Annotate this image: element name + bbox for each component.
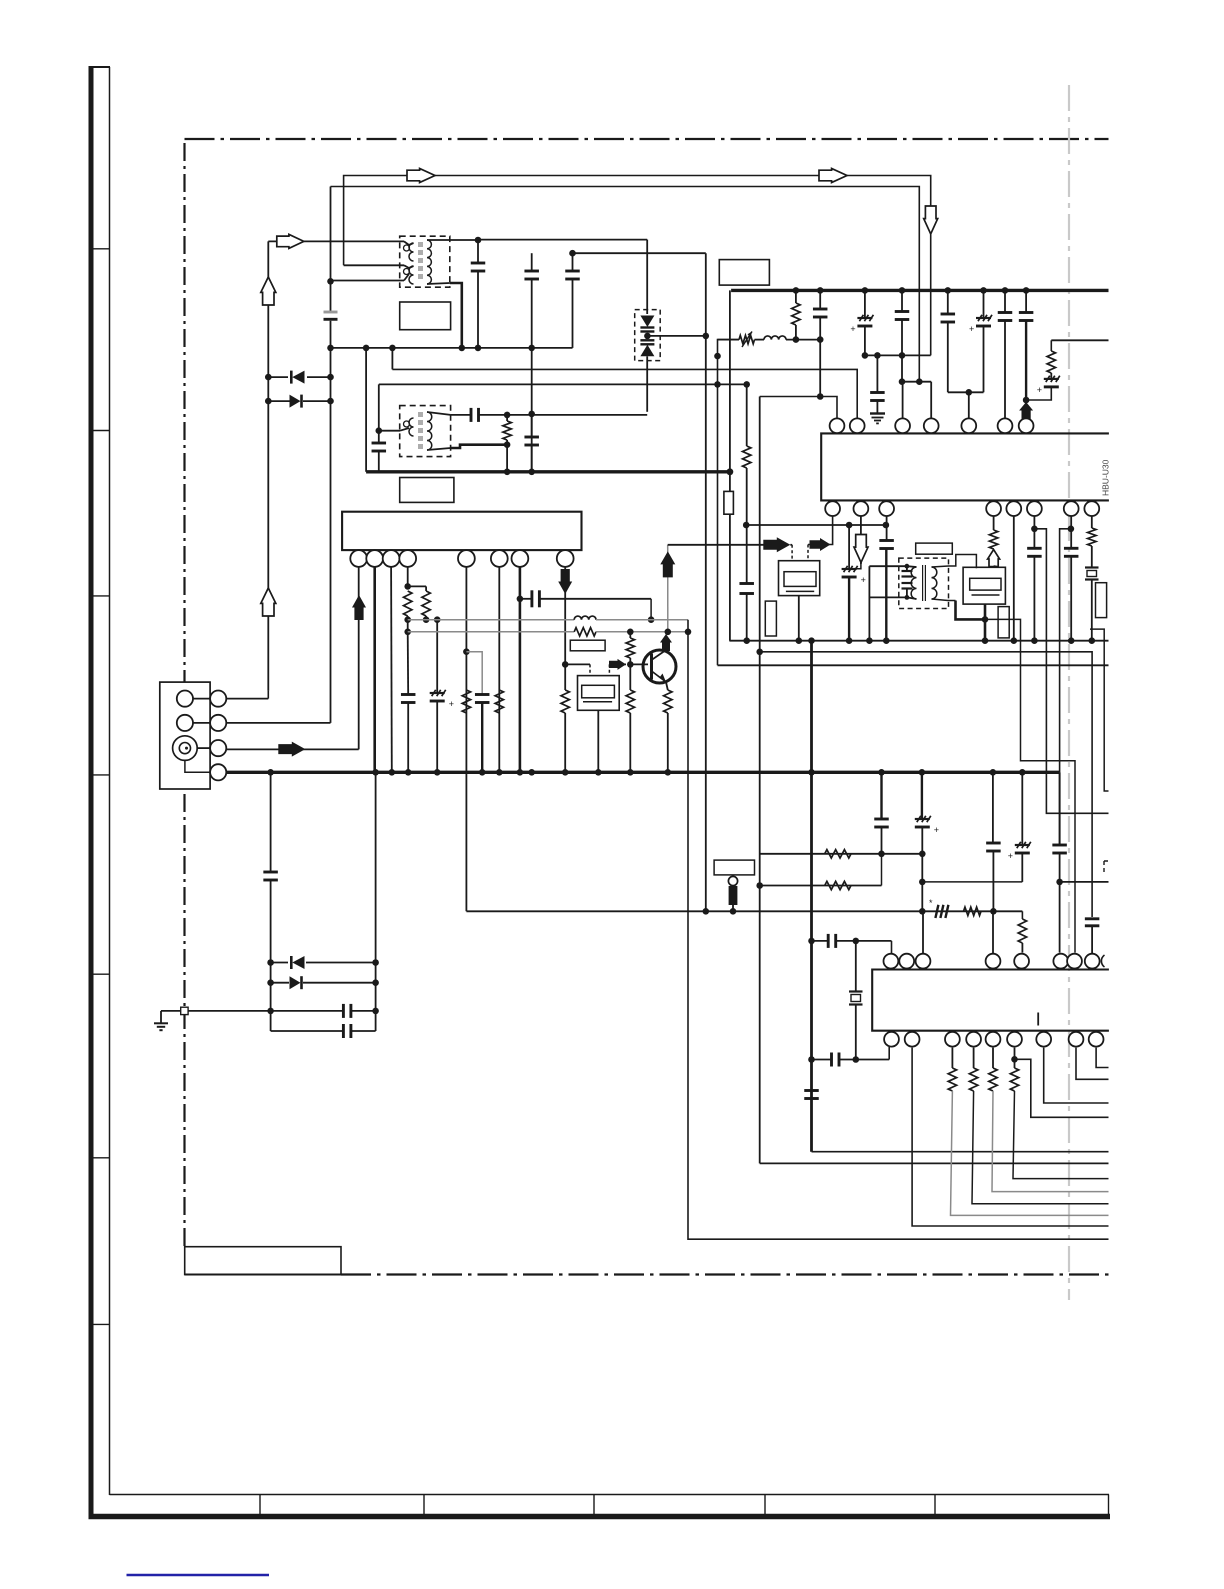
connector CN1 contact 2 (177, 715, 193, 731)
T3 core (922, 565, 924, 601)
node x1059 y882 (1056, 879, 1063, 886)
resistor R9 series (574, 628, 596, 636)
IC1 bottom pin f (1027, 501, 1042, 516)
label box X4 side (1096, 583, 1107, 618)
signal arrow right on y175 right (819, 169, 847, 183)
IC3 top pin d (986, 954, 1001, 969)
wire y665 to right edge (718, 664, 1109, 666)
capacitor C36 series (827, 934, 830, 948)
resistor R24 (992, 1048, 994, 1068)
main node wire y348 (331, 347, 573, 349)
wire y652 (to IC3 via cap) (760, 652, 1092, 917)
IC3 bottom pin h (1069, 1032, 1084, 1047)
inductor L2 (574, 616, 596, 620)
wire IC1 pin g down (1070, 516, 1072, 548)
wire net B vertical x330 (CN1 pin2 up) (330, 187, 332, 312)
capacitor C19 electrolytic to ground (876, 355, 878, 392)
T3 to U4 wire (932, 555, 977, 569)
node pin g branch (1068, 526, 1075, 533)
signal arrow right on y175 left (407, 169, 435, 183)
capacitor C28 (1064, 547, 1079, 550)
wire y240 to zener (478, 239, 647, 241)
zener tap wire (647, 335, 705, 337)
IC1 bottom pin b (854, 501, 869, 516)
feedback wire y632 (408, 631, 575, 633)
wire y355 (865, 354, 931, 356)
wire y854 (760, 853, 923, 855)
resistor R18 series (825, 850, 851, 858)
page frame left bar (89, 67, 94, 1517)
wire y340 to right edge (1051, 339, 1108, 341)
label box U4 side (998, 607, 1009, 638)
IC3 bottom pin i (1089, 1032, 1104, 1047)
wire IC1 pin h down (1091, 516, 1093, 528)
IC1 top pin a (830, 418, 845, 433)
node main y348 west end (327, 345, 334, 352)
capacitor C9 series (470, 408, 473, 422)
wire arrow to C25 (849, 563, 861, 569)
IC3 top pin a (884, 954, 899, 969)
node diode rung 1 (327, 374, 334, 381)
svg-text:+: + (861, 575, 866, 585)
signal arrow solid up on pin1 net (352, 595, 366, 620)
IC1 bottom pin d (986, 501, 1001, 516)
wire IC1 pin a down (808, 516, 833, 545)
connector CN1 body (160, 682, 210, 789)
node diode bridge upper on net A (265, 374, 272, 381)
IC3 top pin h (1085, 954, 1100, 969)
resistor R16 on pin d (993, 516, 995, 530)
wire y885 (760, 885, 882, 887)
wire IC2 pin8 down (564, 567, 566, 665)
wire T1 secondary top out (450, 239, 478, 241)
label box U3 side (765, 601, 776, 636)
connector CN1 RCA jack (173, 736, 198, 761)
label box above T3 (916, 543, 953, 554)
wire y1060 crystal bottom (812, 1059, 832, 1061)
capacitor C30 (880, 772, 882, 818)
IC2 pin 6 (491, 550, 508, 567)
node x392 on y348 (389, 345, 396, 352)
node y632 end (685, 629, 692, 636)
capacitor C37 series (830, 1053, 833, 1067)
node x855 y1060 (853, 1056, 860, 1063)
IC3 top pin g (1067, 954, 1082, 969)
node R4 bottom (404, 616, 411, 623)
label box for T1 (400, 302, 451, 330)
node y348 a (363, 345, 370, 352)
capacitor C7 (572, 253, 574, 271)
node y348 d (528, 345, 535, 352)
capacitor C40 rung (271, 1010, 344, 1012)
wire Q1 base (630, 663, 648, 665)
U3 stub left (791, 545, 793, 561)
bus772 node (528, 769, 535, 776)
resistor R5 (425, 586, 427, 591)
transformer T2 core (418, 412, 423, 452)
IC1 bottom pin g (1064, 501, 1079, 516)
node y525 b (883, 522, 890, 529)
node x985 y619 (982, 616, 989, 623)
svg-text:+: + (1037, 385, 1042, 395)
IC3 bottom pin e (986, 1032, 1001, 1047)
wire y1151 to right edge (812, 1151, 1109, 1153)
capacitor C10 (531, 414, 533, 437)
node T1 winding tap (327, 278, 334, 285)
node R13 bottom (793, 336, 800, 343)
resistor R12 (Q1 emitter) (664, 690, 672, 713)
IC3 top pin c (916, 954, 931, 969)
bus772 node (990, 769, 997, 776)
wire IC2 pin3 to bus772 (390, 567, 393, 772)
IC1 top pin e (961, 418, 976, 433)
node y384 end (743, 381, 750, 388)
wire collector rail y545 (668, 544, 764, 546)
IC3 bottom pin a (884, 1032, 899, 1047)
node y348 c (475, 345, 482, 352)
wire CN1 row1 (193, 698, 210, 700)
U4 stub right (996, 565, 998, 567)
node x820 y396 (817, 393, 824, 400)
rail640 node (743, 637, 750, 644)
IC1 bottom pin e (1006, 501, 1021, 516)
T3 secondary bottom to U4 ground (932, 599, 956, 601)
blue footer underline (127, 1574, 270, 1576)
chassis ground wire (161, 1010, 271, 1012)
resistor R17 (1088, 528, 1096, 546)
resistor R21 (1018, 919, 1026, 943)
trimmer RT1 (718, 339, 740, 341)
node x759 y652 (756, 649, 763, 656)
node x855 y941 (853, 938, 860, 945)
transformer T1 secondary winding (427, 240, 431, 284)
remote sensor LED (728, 876, 737, 885)
capacitor C31 electrolytic (921, 772, 923, 818)
wire y253 to right (573, 252, 706, 254)
node collector top (665, 629, 672, 636)
wire T1 entry (344, 264, 404, 266)
wire T2 feed (378, 384, 380, 430)
wire to T1 lower winding (331, 280, 405, 282)
signal arrow solid right at pin a (810, 538, 831, 551)
wire y599 with C14 (520, 598, 532, 600)
fuse F1 (724, 491, 734, 514)
IC2 pin 7 (512, 550, 529, 567)
svg-text:+: + (934, 825, 939, 835)
node y525 a (846, 522, 853, 529)
bus290 node b (817, 287, 824, 294)
node y382 b (916, 378, 923, 385)
node pin7 y599 (517, 596, 524, 603)
signal wire y911 (466, 910, 1022, 912)
resistor R8 (561, 690, 569, 713)
IC3 top pin f (1053, 954, 1068, 969)
node bus472 c (727, 468, 734, 475)
wire T2 bottom out thick (451, 445, 508, 448)
transformer T2 secondary winding (427, 412, 432, 450)
wire x902 to IC1 pin (902, 382, 904, 419)
svg-text:+: + (449, 699, 454, 709)
signal arrow right on y241 (277, 234, 304, 248)
node pin f branch (1011, 1056, 1018, 1063)
node C7 top / y253 start (569, 250, 576, 257)
resistor R14 (743, 446, 751, 468)
bus290 node g (1002, 287, 1009, 294)
resistor R10 (Q1 base pullup) (627, 629, 634, 636)
node y415 b (528, 411, 535, 418)
IC3 top pin i (partial) (1101, 955, 1104, 967)
transformer T1 shield box (400, 236, 450, 287)
net x811 thick vertical (810, 641, 813, 1152)
rail640 node (796, 637, 803, 644)
rail640 node (1031, 637, 1038, 644)
signal arrow solid down pin8 (558, 569, 572, 594)
wire y882 to right edge (1060, 881, 1109, 883)
wire IC2 pin5 down (465, 567, 467, 911)
X2 stub left (589, 664, 591, 675)
resistor R6 (462, 690, 470, 713)
wire IC2 pin4 branch (407, 567, 409, 587)
svg-text:*: * (929, 898, 933, 908)
label box near Q1 (570, 640, 605, 651)
X2 bottom stub (597, 710, 599, 772)
signal arrow up on net A lower (261, 588, 276, 616)
node x811 y1060 (808, 1056, 815, 1063)
capacitor C29 (804, 1089, 819, 1092)
signal arrow solid up collector net (660, 551, 675, 577)
resistor R22 (951, 1048, 953, 1068)
net x717 vertical (718, 340, 739, 666)
wire x922 pin c (922, 911, 924, 953)
node R3 bottom (504, 441, 511, 448)
filter block U4 (963, 567, 1005, 604)
fold line (gray dash-dot) (1068, 85, 1070, 1300)
node x811 y941 (808, 938, 815, 945)
resistor R11 (Q1 base down) (626, 690, 634, 713)
page frame bottom bar and title row (89, 1514, 1111, 1520)
capacitor C6 (531, 253, 533, 271)
IC2 pin 1 (350, 550, 367, 567)
U3 stub right (807, 545, 809, 561)
bus772 node (627, 769, 634, 776)
IC3 pin b long wire (912, 1048, 1108, 1226)
capacitor C33 (992, 772, 994, 842)
node y392 (966, 389, 973, 396)
diode D2 (268, 400, 290, 402)
bus290 node c (862, 287, 869, 294)
wire to IC3 pin via R21 (1021, 911, 1023, 919)
IC2 pin 3 (383, 550, 400, 567)
wire y382 (902, 381, 931, 383)
connector CN1 contact 1 (177, 691, 193, 707)
node x922 y854 (919, 851, 926, 858)
node pin4 y632 (404, 629, 411, 636)
wire IC2 pin7 thick (519, 567, 522, 772)
node y355 a (862, 352, 869, 359)
rail640 node (1011, 637, 1018, 644)
wire U4 to IC3 pin route (985, 619, 1075, 952)
label box for T2 (400, 478, 454, 503)
node pin8 base drive (562, 661, 569, 668)
capacitor C5 (477, 240, 479, 263)
resistor R23 (973, 1048, 975, 1068)
capacitor C14 series (530, 590, 533, 607)
branch x1059 down (to IC3) (1060, 529, 1071, 773)
IC3 bottom pin c (945, 1032, 960, 1047)
capacitor C27 (1027, 547, 1042, 550)
bus772 node (919, 769, 926, 776)
capacitor C20 (947, 290, 949, 313)
label box bottom left on border (185, 1247, 341, 1275)
node y882 on x922 (919, 879, 926, 886)
bus772 node (372, 769, 379, 776)
signal arrow down on x930 (924, 206, 938, 234)
node sensor on y911 (730, 908, 737, 915)
capacitor C41 bottom rung (271, 1030, 344, 1032)
branch to C13 (466, 652, 482, 694)
IC1 top pin f (998, 418, 1013, 433)
wire T2 out y415 (451, 414, 471, 416)
node y355 c (899, 352, 906, 359)
wire y396 to IC1 pin (760, 397, 837, 419)
power bus y290 (thick) (731, 289, 1108, 292)
U4 output thick (984, 604, 987, 619)
capacitor C34 electrolytic (1021, 772, 1023, 844)
wire Q1 emitter (666, 682, 668, 690)
wire y1163 to right edge (760, 1162, 1109, 1164)
IC3 pin i wire (1096, 1048, 1108, 1068)
bus772 node (808, 769, 815, 776)
rail640 node (808, 637, 815, 644)
IC3 microcontroller (872, 970, 1109, 1031)
bus290 node e (945, 287, 952, 294)
mini ground under C19 (872, 417, 884, 419)
capacitor C26 (886, 516, 888, 540)
svg-text:HBU-U30: HBU-U30 (1101, 459, 1111, 496)
wire feed y186 (331, 187, 920, 382)
bus772 node (496, 769, 503, 776)
chassis ground symbol (160, 1011, 162, 1023)
svg-text:+: + (850, 324, 855, 334)
rail640 node (883, 637, 890, 644)
signal arrow solid right y545 (763, 537, 790, 552)
signal arrow solid up to IC1 pin (1019, 402, 1033, 419)
board outline dash-dot border (183, 140, 185, 1246)
capacitor C35 on x1059 (1059, 772, 1061, 844)
node x746 y525 (743, 522, 750, 529)
wire feed y175 (to AC input arrows) (344, 176, 931, 356)
node x759 y885 (756, 882, 763, 889)
wire T1 secondary bottom out (thick) (450, 283, 462, 348)
border feedthrough square (181, 1007, 188, 1014)
node diode rung 2 (327, 398, 334, 405)
transformer T1 primary winding 2 (404, 269, 410, 275)
signal arrow up on net A (261, 277, 276, 305)
capacitor C23 feed (1025, 290, 1027, 312)
wire IC1 pin f down (1033, 516, 1035, 548)
supply wire y369 to IC1 (392, 369, 857, 418)
wire x968 to IC1 pin (968, 392, 970, 418)
transformer T3 box (899, 558, 949, 608)
node bus472 a (504, 469, 511, 476)
IC1 bottom pin c (879, 501, 894, 516)
power bus y472 (thick) (366, 470, 731, 473)
resistor R4 (404, 591, 412, 616)
bus772 node (665, 769, 672, 776)
bus772 node (1019, 769, 1026, 776)
node L1 out (817, 336, 824, 343)
bus290 node f (980, 287, 987, 294)
wire x931 to IC1 pin (930, 382, 932, 419)
capacitor C22 (1004, 290, 1006, 312)
IC1 top pin d (924, 418, 939, 433)
rail640 node (982, 637, 989, 644)
bus290 node h (1023, 287, 1030, 294)
wire y525 (746, 524, 886, 526)
node x993 y911 (990, 908, 997, 915)
ground rail y640 (729, 640, 1108, 642)
bus290 node a (793, 287, 800, 294)
branch x1046 down (1034, 529, 1108, 814)
net x270 below bus (270, 772, 272, 871)
bus772 node (479, 769, 486, 776)
resistor R20 series (964, 907, 982, 915)
net x705 vertical (zener tap to y911) (705, 253, 707, 911)
feedback wire y620 (408, 619, 575, 621)
capacitor C39 (263, 871, 278, 874)
resistor R15 (1050, 340, 1052, 351)
wire x366 down to power bus (365, 348, 367, 472)
capacitor C24 electrolytic (1044, 378, 1059, 380)
T3 tuning caps (902, 570, 913, 572)
transformer T1 primary winding 1 (404, 245, 410, 251)
IC1 tuner/IF IC (821, 433, 1109, 500)
label box top right (719, 260, 769, 286)
bus772 node (434, 769, 441, 776)
wire top feed y241 with arrow (268, 240, 404, 242)
branch to y1117 (1015, 1059, 1109, 1117)
bus772 node (405, 769, 412, 776)
IC3 bottom pin d (966, 1032, 981, 1047)
IC1 top pin c (895, 418, 910, 433)
connector CN1 pin 3 (210, 740, 226, 756)
U3 bottom to rail (798, 596, 800, 641)
IC3 top pin b (899, 954, 914, 969)
node T2 feed (376, 427, 383, 434)
inductor L1 (755, 339, 765, 341)
IC1 top pin b (850, 418, 865, 433)
node bus472 b (528, 469, 535, 476)
svg-text:+: + (969, 324, 974, 334)
IC1 bottom pin h (1084, 501, 1099, 516)
IC3 top pin e (1014, 954, 1029, 969)
wire CN1 jack to pin4 (185, 760, 218, 772)
IC2 pin 4 (399, 550, 416, 567)
signal arrow hollow up pin d (988, 550, 1000, 567)
dashed fragment right edge (1104, 861, 1109, 875)
crystal X3 (855, 941, 857, 991)
IC2 power amplifier (342, 512, 581, 550)
signal arrow solid right CN1 pin3 (278, 742, 305, 757)
node y382 a (899, 378, 906, 385)
bracket net right edge (1090, 629, 1109, 791)
capacitor C12 electrolytic (436, 620, 438, 693)
node y415 a (504, 412, 511, 419)
capacitor C17 electrolytic (864, 290, 866, 317)
bus772 node (595, 769, 602, 776)
IC1 top pin g (1019, 418, 1034, 433)
bus772 node (878, 769, 885, 776)
